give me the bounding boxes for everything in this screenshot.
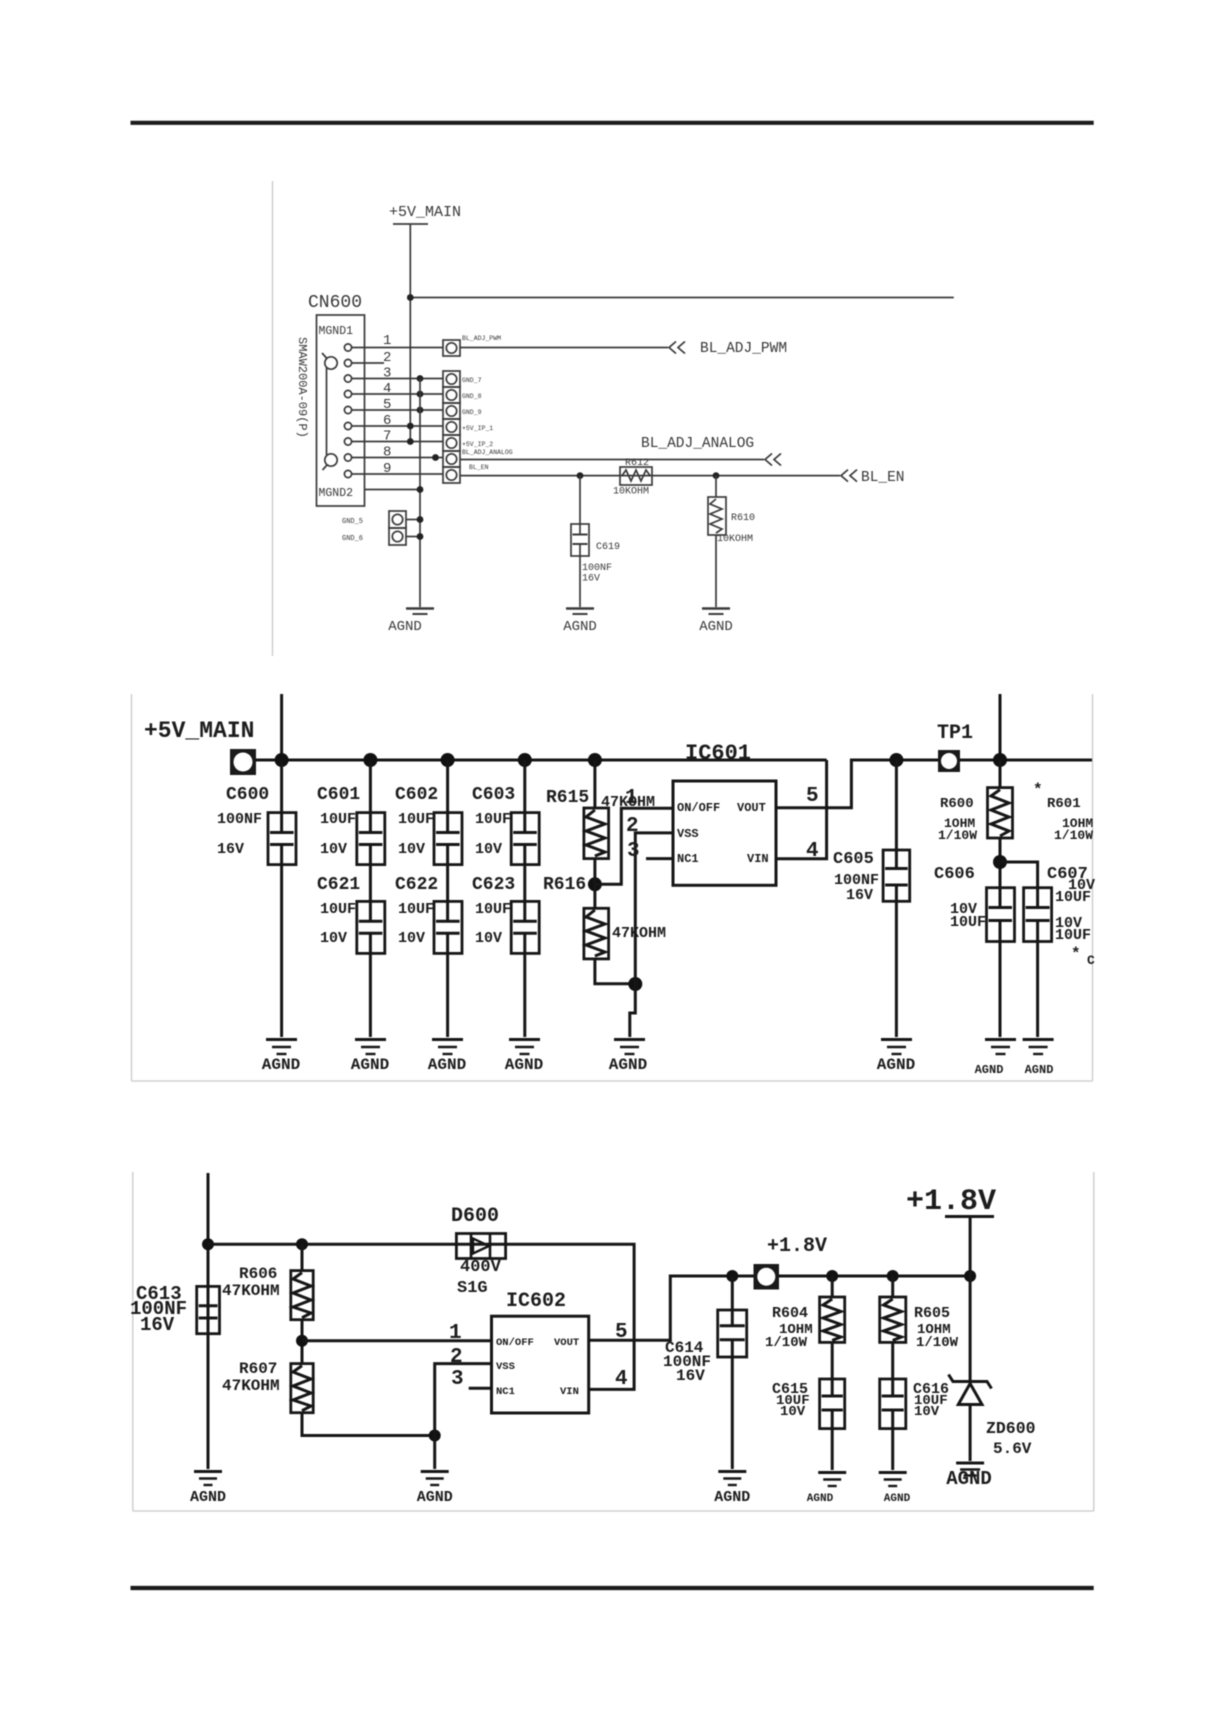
pin 7 circle (344, 438, 351, 445)
connector shield circle top (325, 357, 337, 369)
svg-text:400V: 400V (460, 1258, 502, 1277)
connector shield circle bottom (325, 454, 337, 466)
wire +1.8V power stem (969, 1217, 972, 1277)
ground AGND (C623) (509, 1040, 540, 1055)
wire GND_6 stub (406, 536, 420, 538)
wire C621 to ground (369, 953, 372, 1037)
node pin8 junction (432, 454, 439, 461)
svg-text:R606: R606 (239, 1265, 277, 1283)
svg-text:3: 3 (451, 1368, 464, 1391)
pin 4 circle (344, 390, 351, 397)
svg-text:3: 3 (627, 840, 640, 863)
svg-text:1/10W: 1/10W (1054, 828, 1093, 843)
wire C622 to ground (446, 953, 449, 1037)
wire main +5V bus (256, 759, 827, 762)
svg-text:AGND: AGND (884, 1493, 911, 1505)
pad +5V_IP_2 square (443, 435, 460, 451)
svg-text:BL_ADJ_ANALOG: BL_ADJ_ANALOG (641, 436, 754, 452)
wire IC601 pin2 (635, 833, 673, 984)
svg-text:NC1: NC1 (677, 852, 699, 866)
wire IC601 pin3 stub (646, 857, 673, 860)
wire ground bus vertical (419, 379, 421, 608)
wire C614 to ground (731, 1357, 734, 1469)
resistor R606 body (291, 1271, 313, 1320)
top page rule (131, 121, 1094, 125)
pad GND_6 square (389, 528, 406, 545)
svg-text:10UF: 10UF (475, 811, 511, 828)
svg-text:C603: C603 (472, 785, 515, 805)
svg-text:10UF: 10UF (1055, 889, 1091, 906)
svg-text:+1.8V: +1.8V (767, 1235, 827, 1258)
wire R606 to pin1 node (301, 1320, 304, 1364)
node bus junction C603 (518, 753, 532, 767)
node VSS ground junction (628, 977, 642, 991)
svg-text:10UF: 10UF (475, 901, 511, 918)
svg-text:AGND: AGND (714, 1489, 750, 1506)
svg-text:BL_ADJ_PWM: BL_ADJ_PWM (700, 341, 787, 357)
wire C615 to ground (831, 1429, 834, 1470)
regulator IC602 body (492, 1316, 589, 1413)
ground AGND (C616) (879, 1473, 907, 1487)
svg-text:R605: R605 (914, 1305, 950, 1322)
pad +5V_MAIN test point (230, 749, 256, 775)
arrow BL_ADJ_PWM chevrons (669, 342, 685, 354)
svg-text:AGND: AGND (351, 1056, 389, 1074)
wire C600 lead (280, 760, 283, 813)
ground AGND (C605) (881, 1040, 912, 1055)
svg-text:GND_6: GND_6 (342, 535, 363, 543)
svg-text:VIN: VIN (747, 852, 769, 866)
svg-text:1/10W: 1/10W (765, 1335, 808, 1351)
node pin6 +5V junction (407, 423, 414, 430)
node pin4 gnd junction (417, 391, 424, 398)
svg-text:16V: 16V (217, 841, 244, 858)
node pin5 gnd junction (417, 407, 424, 414)
svg-text:NC1: NC1 (496, 1386, 515, 1398)
svg-text:R604: R604 (772, 1305, 808, 1322)
capacitor C601 body (357, 813, 385, 865)
svg-text:R600: R600 (940, 796, 974, 812)
svg-text:*: * (1033, 781, 1043, 799)
svg-text:TP1: TP1 (937, 722, 973, 745)
svg-text:C: C (1087, 953, 1095, 968)
svg-text:47KOHM: 47KOHM (222, 1282, 280, 1300)
capacitor C603 body (511, 813, 539, 865)
node R615 R616 junction (588, 877, 602, 891)
svg-text:+5V_IP_2: +5V_IP_2 (462, 441, 493, 448)
capacitor C613 body (197, 1286, 220, 1333)
pad GND_9 square (443, 403, 460, 419)
svg-text:10KOHM: 10KOHM (613, 487, 649, 498)
wire R600 top stub (999, 694, 1002, 760)
svg-text:C622: C622 (395, 875, 438, 895)
resistor R610 body (708, 497, 726, 535)
wire R610 stem (715, 476, 717, 497)
svg-text:10V: 10V (320, 841, 347, 858)
arrow BL_ADJ_ANALOG chevrons (765, 454, 781, 466)
svg-text:1: 1 (383, 333, 391, 349)
node C614 junction (726, 1270, 738, 1282)
wire C603 lead (523, 760, 526, 813)
node GND_6 junction (417, 533, 424, 540)
capacitor C606 body (987, 888, 1015, 942)
node R605 junction (887, 1270, 899, 1282)
svg-text:GND_7: GND_7 (462, 377, 482, 384)
connector CN600 body (317, 315, 365, 506)
resistor R615 body (584, 808, 609, 859)
node bus junction C602 (441, 753, 455, 767)
capacitor C614 body (718, 1310, 747, 1357)
capacitor C615 body (820, 1379, 845, 1429)
wire BL_EN (460, 475, 840, 477)
bottom page rule (131, 1586, 1094, 1590)
node R606 R607 pin1 junction (296, 1335, 308, 1347)
wire C607 to ground (1036, 942, 1039, 1038)
svg-text:16V: 16V (846, 887, 873, 904)
resistor R604 body (820, 1297, 845, 1342)
svg-text:R610: R610 (731, 513, 755, 524)
ground AGND (C619) (566, 609, 594, 615)
svg-text:+1.8V: +1.8V (906, 1185, 996, 1219)
svg-text:10V: 10V (320, 930, 347, 947)
svg-text:10KOHM: 10KOHM (717, 534, 753, 545)
node C606 C607 junction (993, 855, 1007, 869)
arrow BL_EN chevrons (841, 470, 857, 482)
node VSS junction (429, 1430, 441, 1442)
svg-text:R607: R607 (239, 1360, 277, 1378)
node ZD600 junction (964, 1270, 976, 1282)
pin 1 circle (344, 344, 351, 351)
svg-text:5: 5 (806, 785, 819, 808)
svg-text:+5V_MAIN: +5V_MAIN (389, 204, 461, 221)
svg-text:AGND: AGND (190, 1489, 226, 1506)
svg-text:C602: C602 (395, 785, 438, 805)
svg-text:47KOHM: 47KOHM (612, 925, 666, 942)
svg-text:AGND: AGND (505, 1056, 543, 1074)
wire C616 to ground (891, 1429, 894, 1470)
wire pin5 (352, 409, 443, 411)
pad BL_ADJ_PWM square (443, 340, 460, 356)
svg-text:VOUT: VOUT (737, 801, 766, 815)
svg-text:10UF: 10UF (320, 811, 356, 828)
wire pin7 (352, 441, 443, 443)
svg-text:ZD600: ZD600 (986, 1419, 1036, 1438)
wire C614 lead (731, 1276, 734, 1310)
wire IC602 pin2 VSS (435, 1364, 492, 1436)
pad TP1 test point (938, 750, 960, 772)
svg-text:10UF: 10UF (398, 901, 434, 918)
wire R605 to C616 (891, 1342, 894, 1379)
wire C602 to C622 (446, 865, 449, 902)
section A left crop border (272, 181, 274, 656)
svg-text:AGND: AGND (946, 1468, 992, 1490)
node rail junction R606 (296, 1238, 308, 1250)
resistor R616 body (584, 908, 609, 959)
section C bottom crop border (133, 1510, 1094, 1512)
pin 9 circle (344, 470, 351, 477)
wire pin6 (352, 425, 443, 427)
ground AGND (C600) (266, 1040, 297, 1055)
node pin7 +5V junction (407, 438, 414, 445)
node R604 junction (826, 1270, 838, 1282)
svg-text:R616: R616 (543, 875, 586, 895)
wire left +5V column (207, 1173, 210, 1469)
node GND_5 junction (417, 516, 424, 523)
svg-text:AGND: AGND (609, 1056, 647, 1074)
capacitor C605 body (883, 850, 910, 901)
ground AGND (C614) (718, 1472, 746, 1486)
wire D600 to VIN (506, 1244, 634, 1389)
ground AGND (C621) (355, 1040, 386, 1055)
wire pin4 (352, 393, 443, 395)
pad GND_7 square (443, 371, 460, 387)
section C left crop border (132, 1172, 134, 1511)
power symbol +1.8V bar (945, 1215, 994, 1218)
svg-text:AGND: AGND (417, 1489, 453, 1506)
wire +5V_MAIN vertical (409, 224, 411, 442)
wire R607 bottom to vss node (302, 1413, 435, 1436)
resistor R600 body (988, 788, 1013, 838)
section B left crop border (131, 694, 133, 1081)
svg-text:ON/OFF: ON/OFF (677, 801, 720, 815)
svg-text:MGND1: MGND1 (319, 325, 354, 338)
svg-text:S1G: S1G (457, 1279, 488, 1298)
capacitor C602 body (434, 813, 462, 865)
svg-text:C619: C619 (596, 542, 620, 553)
svg-text:C623: C623 (472, 875, 515, 895)
wire C623 to ground (523, 953, 526, 1037)
svg-text:BL_EN: BL_EN (861, 470, 905, 486)
resistor R612 body (620, 467, 652, 485)
capacitor C619 body (571, 524, 589, 556)
ground AGND (R616) (614, 1040, 645, 1055)
wire C619 stem (579, 476, 581, 524)
svg-text:47KOHM: 47KOHM (222, 1377, 280, 1395)
svg-text:D600: D600 (451, 1205, 499, 1228)
svg-text:CN600: CN600 (308, 293, 362, 313)
zener diode ZD600 body (949, 1375, 992, 1405)
shield tick top (322, 353, 327, 358)
wire IC602 pin3 NC1 stub (469, 1387, 492, 1390)
svg-text:10UF: 10UF (1055, 927, 1091, 944)
svg-text:10V: 10V (914, 1404, 940, 1420)
section C right crop border (1093, 1172, 1095, 1511)
svg-text:R612: R612 (625, 458, 649, 469)
wire IC601 pin4 VIN from bus (776, 760, 827, 859)
svg-text:10UF: 10UF (320, 901, 356, 918)
svg-text:+5V_MAIN: +5V_MAIN (144, 718, 254, 744)
wire MGND2 to ground bus (365, 489, 421, 491)
node R610 junction (713, 472, 720, 479)
wire R604 to C615 (831, 1342, 834, 1379)
node rail junction left (202, 1238, 214, 1250)
svg-text:10V: 10V (475, 930, 502, 947)
svg-text:IC601: IC601 (685, 741, 751, 766)
node pin3 gnd junction (417, 375, 424, 382)
pin 8 circle (344, 454, 351, 461)
pin 6 circle (344, 422, 351, 429)
svg-text:+5V_IP_1: +5V_IP_1 (462, 425, 493, 432)
svg-text:AGND: AGND (428, 1056, 466, 1074)
svg-text:AGND: AGND (563, 619, 597, 635)
svg-text:2: 2 (626, 815, 639, 838)
svg-text:VIN: VIN (560, 1386, 579, 1398)
wire C605 to ground (895, 901, 898, 1037)
svg-text:16V: 16V (582, 574, 600, 585)
capacitor C600 body (268, 813, 296, 865)
pad +1.8V test point (754, 1264, 780, 1290)
pin 5 circle (344, 406, 351, 413)
svg-text:2: 2 (450, 1346, 463, 1369)
svg-text:1/10W: 1/10W (938, 828, 977, 843)
wire R615 to junction (593, 859, 596, 909)
wire C619 to ground (579, 556, 581, 607)
resistor R607 body (291, 1364, 313, 1413)
wire C606 to ground (999, 942, 1002, 1038)
wire C602 lead (446, 760, 449, 813)
svg-text:AGND: AGND (807, 1493, 834, 1505)
wire C601 lead (369, 760, 372, 813)
svg-text:AGND: AGND (699, 619, 733, 635)
svg-text:AGND: AGND (262, 1056, 300, 1074)
section B right crop border (1092, 694, 1094, 1081)
wire C601 to C621 (369, 865, 372, 902)
wire +1.8V rail to pad (732, 1275, 754, 1278)
svg-text:1: 1 (449, 1322, 462, 1345)
svg-text:C600: C600 (226, 785, 269, 805)
capacitor C622 body (434, 901, 462, 953)
svg-text:BL_EN: BL_EN (469, 464, 489, 471)
ground AGND (connector) (406, 609, 434, 615)
svg-text:10V: 10V (398, 930, 425, 947)
op-amp regulator IC601 body (673, 781, 776, 885)
svg-text:VSS: VSS (496, 1361, 515, 1373)
svg-text:1/10W: 1/10W (916, 1335, 959, 1351)
svg-text:C621: C621 (317, 875, 360, 895)
svg-text:100NF: 100NF (582, 563, 612, 574)
wire vss node to ground (433, 1436, 436, 1470)
pin 2 circle (344, 359, 351, 366)
node bus junction R600 (993, 753, 1007, 767)
pad +5V_IP_1 square (443, 419, 460, 435)
svg-text:MGND2: MGND2 (319, 487, 354, 500)
ground AGND (C606) (985, 1040, 1016, 1055)
wire IC601 pin5 VOUT to rail (776, 760, 938, 808)
svg-text:BL_ADJ_ANALOG: BL_ADJ_ANALOG (462, 449, 513, 456)
node bus junction C600 (275, 753, 289, 767)
svg-text:R615: R615 (546, 788, 589, 808)
svg-text:AGND: AGND (1025, 1063, 1054, 1077)
wire pin1 to pad (352, 347, 443, 349)
svg-text:GND_5: GND_5 (342, 518, 363, 526)
wire IC602 pin5 VOUT to +1.8V rail (589, 1276, 733, 1340)
svg-text:IC602: IC602 (506, 1290, 566, 1313)
pad GND_5 square (389, 511, 406, 528)
svg-text:16V: 16V (676, 1367, 705, 1385)
svg-text:GND_9: GND_9 (462, 409, 482, 416)
capacitor C607 body (1024, 888, 1052, 942)
node output junction C605 (889, 753, 903, 767)
ground AGND (C615) (818, 1473, 846, 1487)
ground AGND (ZD600) (956, 1463, 984, 1476)
svg-text:VOUT: VOUT (554, 1337, 579, 1349)
ground AGND (C607) (1023, 1040, 1054, 1055)
wire R600 to C606 node (999, 838, 1002, 888)
svg-text:*: * (1071, 945, 1081, 963)
svg-text:VSS: VSS (677, 827, 699, 841)
wire R600 lead (999, 760, 1002, 788)
svg-text:100NF: 100NF (217, 811, 262, 828)
svg-text:10V: 10V (398, 841, 425, 858)
wire +1.8V rail (777, 1275, 970, 1278)
section B bottom crop border (132, 1080, 1093, 1082)
pin 3 circle (344, 375, 351, 382)
wire R604 lead (831, 1276, 834, 1297)
wire +5V_MAIN horizontal rail (410, 297, 954, 299)
resistor R605 body (880, 1297, 906, 1342)
ground AGND (R610) (702, 609, 730, 615)
wire ZD600 to ground (969, 1405, 972, 1462)
svg-text:1: 1 (625, 787, 638, 810)
node C619 junction (577, 472, 584, 479)
wire pin2 stub (352, 362, 384, 364)
shield tick bottom (323, 465, 328, 470)
wire bus after TP1 (960, 759, 1092, 762)
svg-text:R601: R601 (1047, 796, 1081, 812)
power symbol +5V_MAIN bar (393, 223, 428, 225)
wire IC601 pin1 (595, 808, 673, 884)
wire R610 to ground (715, 535, 717, 607)
svg-text:4: 4 (615, 1368, 628, 1391)
svg-text:AGND: AGND (877, 1056, 915, 1074)
wire pin8 (352, 457, 443, 459)
wire C603 to C623 (523, 865, 526, 902)
wire GND_5 stub (406, 519, 420, 521)
wire top rail to D600 (208, 1243, 456, 1246)
svg-text:BL_ADJ_PWM: BL_ADJ_PWM (462, 335, 501, 342)
node bus junction R615 (588, 753, 602, 767)
diode D600 body (456, 1234, 505, 1259)
svg-text:AGND: AGND (975, 1063, 1004, 1077)
ground AGND (C613) (194, 1472, 222, 1486)
svg-text:C601: C601 (317, 785, 360, 805)
wire ZD600 lead (969, 1276, 972, 1383)
pad BL_EN square (443, 467, 460, 483)
capacitor C621 body (357, 901, 385, 953)
wire R606 lead (301, 1244, 304, 1270)
svg-text:AGND: AGND (388, 619, 422, 635)
pad BL_ADJ_ANALOG square (443, 451, 460, 467)
svg-text:SMAW200A-09(P): SMAW200A-09(P) (295, 337, 309, 438)
svg-text:5.6V: 5.6V (993, 1440, 1032, 1458)
ground AGND (IC602) (421, 1472, 449, 1486)
node MGND2 junction (417, 486, 424, 493)
svg-text:2: 2 (383, 350, 391, 366)
wire pin9 (352, 473, 443, 475)
wire junction to C607 (1000, 862, 1038, 888)
wire R615 lead (593, 760, 596, 808)
pad GND_8 square (443, 387, 460, 403)
node junction +5V rail (407, 294, 414, 301)
svg-text:10UF: 10UF (950, 914, 986, 931)
svg-text:GND_8: GND_8 (462, 393, 482, 400)
wire shield link (326, 368, 328, 455)
wire IC602 pin1 (302, 1339, 492, 1342)
svg-text:10V: 10V (780, 1404, 806, 1420)
wire pin1 net to arrow (460, 347, 668, 349)
wire C605 lead (895, 760, 898, 850)
svg-text:16V: 16V (140, 1314, 175, 1336)
